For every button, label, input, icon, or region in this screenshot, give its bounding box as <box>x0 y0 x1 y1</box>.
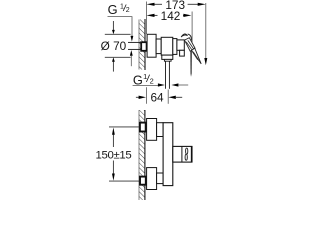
outlet block 2 <box>164 59 171 61</box>
wire: G1/2 bottom arrows at outlet pipe <box>133 83 189 86</box>
ring <box>173 39 177 55</box>
wire: right extension line 173 with down arrow to lever tip <box>204 3 207 65</box>
escutcheon bottom (bottom view) <box>147 168 157 190</box>
svg-text:1: 1 <box>143 72 147 81</box>
escutcheon (side view) <box>147 34 156 57</box>
svg-text:G: G <box>108 2 118 17</box>
wall (top side view) <box>139 19 145 70</box>
svg-text:2: 2 <box>150 76 154 85</box>
wire: extension line 142 <box>191 12 193 46</box>
inlet arm top <box>157 123 164 137</box>
union fitting square (in wall, top view) <box>141 42 146 51</box>
dimension 142 <box>147 9 192 23</box>
union square top (bottom view) <box>140 123 146 132</box>
step ring <box>156 39 161 54</box>
dimension 64 <box>136 87 182 104</box>
label G1/2 (bottom) <box>133 72 154 88</box>
mixer body <box>161 37 173 55</box>
dimension 150±15 <box>95 127 139 181</box>
wire: left extension line (wall face) <box>145 2 147 35</box>
svg-text:64: 64 <box>150 91 164 105</box>
wall (bottom top-view) <box>139 110 145 200</box>
outlet pipe <box>166 61 170 89</box>
svg-text:1: 1 <box>120 3 124 10</box>
knob / lever (top view) <box>173 146 192 162</box>
dimension Ø70 <box>101 21 131 72</box>
svg-text:150±15: 150±15 <box>95 150 131 162</box>
union square bottom (bottom view) <box>140 177 146 185</box>
outlet block <box>162 55 173 59</box>
svg-text:Ø 70: Ø 70 <box>101 39 127 53</box>
lever handle (side view) <box>181 34 201 77</box>
mixer body bar (top view) <box>163 123 173 186</box>
inlet arm bottom <box>157 173 164 184</box>
handle base cap <box>177 40 184 50</box>
label G1/2 (top) <box>108 2 130 17</box>
escutcheon top (bottom view) <box>147 119 157 141</box>
dimension 173 <box>147 0 206 12</box>
wire: G1/2 lower arrow (pipe diameter) <box>130 50 133 66</box>
supply pipe in wall <box>128 42 141 49</box>
svg-text:142: 142 <box>161 9 181 23</box>
wire: leader G1/2 top <box>108 17 134 42</box>
svg-text:2: 2 <box>126 7 130 14</box>
